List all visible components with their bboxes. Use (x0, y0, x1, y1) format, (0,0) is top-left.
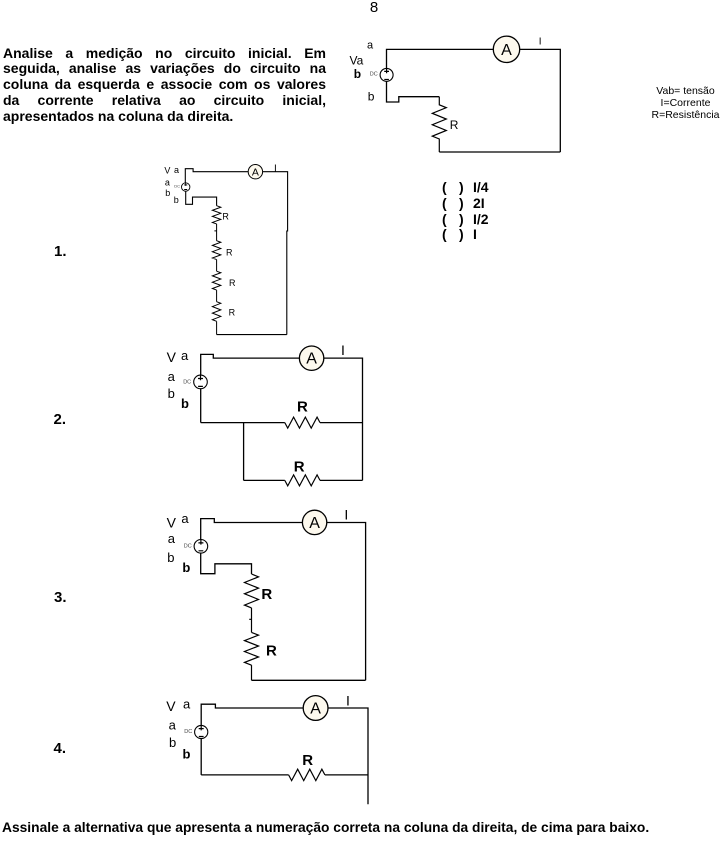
wire R2-R3 (circuit 1) (216, 260, 218, 272)
svg-text:R: R (261, 586, 272, 603)
svg-text:A: A (252, 167, 259, 179)
options column (0, 0, 1, 1)
ammeter A (circuit 2) (299, 346, 323, 370)
dc source V1 (circuit 1) (182, 183, 190, 191)
svg-text:b: b (169, 735, 176, 750)
svg-text:A: A (306, 351, 317, 368)
svg-text:a: a (174, 165, 179, 175)
resistor R2 (circuit 1) (212, 241, 220, 260)
resistor R (initial) (432, 97, 446, 152)
svg-text:b: b (182, 560, 190, 575)
wire R2 to bottom (circuit 3) (251, 665, 253, 680)
wire source bottom with step to resistor top (387, 82, 440, 103)
wire branch drop (circuit 2) (243, 423, 245, 481)
wire top with step (circuit 3) (201, 519, 303, 540)
svg-text:R: R (226, 248, 233, 258)
svg-text:Va: Va (350, 53, 364, 67)
wire upper branch right (circuit 2) (320, 422, 363, 424)
dc source V1 (380, 68, 393, 81)
svg-text:A: A (310, 701, 321, 718)
intro paragraph (3, 46, 326, 125)
wire bottom (circuit 3) (252, 679, 366, 681)
svg-text:I: I (274, 163, 277, 174)
resistor R3 (circuit 1) (212, 271, 220, 290)
bottom instruction (2, 821, 728, 835)
wire upper branch left (circuit 2) (201, 422, 285, 424)
wire source bottom step (circuit 1) (186, 191, 217, 206)
svg-text:a: a (168, 369, 176, 384)
svg-text:a: a (168, 531, 176, 546)
svg-text:DC: DC (183, 379, 191, 385)
svg-text:R: R (229, 308, 236, 318)
svg-text:b: b (354, 67, 361, 81)
wire ammeter to top-right corner and right side down (520, 49, 561, 152)
svg-text:b: b (165, 188, 170, 198)
svg-text:V: V (167, 514, 177, 530)
wire ammeter to right corner down (circuit 3) (327, 523, 366, 681)
svg-text:b: b (168, 386, 175, 401)
svg-text:a: a (181, 511, 189, 526)
svg-text:I: I (539, 37, 542, 48)
wire source bottom step (circuit 3) (201, 553, 252, 574)
svg-text:b: b (174, 195, 179, 205)
dc source V1 (circuit 2) (194, 375, 208, 389)
svg-text:A: A (309, 515, 320, 532)
ammeter A (circuit 3) (302, 510, 326, 534)
dc source V1 (circuit 3) (194, 540, 208, 554)
svg-text:R: R (229, 278, 236, 288)
svg-text:b: b (368, 90, 375, 104)
svg-text:R: R (222, 212, 229, 222)
svg-text:R: R (294, 459, 305, 476)
wire bottom left to resistor (circuit 4) (201, 774, 288, 776)
dc source V1 (circuit 4) (195, 725, 208, 738)
svg-text:R: R (302, 752, 313, 769)
svg-text:a: a (165, 178, 170, 188)
svg-text:DC: DC (370, 71, 378, 77)
svg-text:V: V (166, 698, 176, 714)
resistor R lower (circuit 2) (285, 475, 320, 486)
wire ammeter to right corner down (circuit 2) (324, 358, 363, 480)
wire lower branch left (circuit 2) (244, 479, 285, 481)
item number 3. (54, 591, 67, 605)
svg-text:A: A (501, 42, 512, 59)
wire R1-R2 (circuit 1) (214, 224, 216, 241)
wire top with step (circuit 1) (185, 169, 248, 184)
wire top with step (circuit 2) (201, 354, 300, 375)
ammeter A (circuit 4) (303, 696, 328, 721)
wire R4 to bottom (circuit 1) (216, 321, 218, 334)
wire ammeter to right corner down (circuit 1) (262, 172, 287, 335)
legend right (643, 85, 728, 121)
wire bottom resistor to right (circuit 4) (325, 774, 368, 776)
wire ammeter to right corner down with stub (circuit 4) (328, 708, 368, 804)
svg-text:a: a (169, 718, 177, 733)
svg-text:b: b (183, 746, 191, 761)
wire R1-R2 (circuit 3) (249, 608, 251, 633)
ammeter A1 (initial) (493, 36, 519, 62)
item number 1. (54, 245, 67, 259)
svg-text:V: V (167, 349, 177, 365)
wire source bottom left (circuit 4) (200, 739, 202, 775)
wire lower branch right (circuit 2) (320, 479, 363, 481)
resistor R1 (circuit 3) (245, 574, 259, 608)
wire R3-R4 (circuit 1) (216, 290, 218, 302)
resistor R4 (circuit 1) (212, 302, 220, 322)
svg-text:V: V (164, 165, 170, 175)
ammeter A (circuit 1) (248, 165, 262, 179)
resistor R upper (circuit 2) (285, 417, 320, 428)
svg-text:DC: DC (184, 544, 192, 550)
svg-text:a: a (181, 348, 189, 363)
wire source bottom left (circuit 2) (200, 389, 202, 423)
svg-text:DC: DC (184, 729, 192, 735)
svg-text:R: R (266, 643, 277, 660)
resistor R1 (circuit 1) (212, 206, 220, 224)
svg-text:a: a (367, 40, 374, 52)
svg-text:b: b (167, 550, 174, 565)
resistor R2 (circuit 3) (245, 632, 259, 665)
wire top with step (circuit 4) (201, 704, 303, 725)
resistor R (circuit 4) (289, 769, 325, 780)
wire top from source to ammeter (387, 49, 494, 68)
wire bottom from right corner to resistor (439, 151, 560, 153)
svg-text:b: b (181, 396, 189, 411)
svg-text:R: R (450, 118, 459, 132)
svg-text:R: R (297, 399, 308, 416)
item number 2. (54, 413, 67, 427)
wire bottom (circuit 1) (217, 334, 287, 336)
svg-text:I: I (341, 342, 345, 358)
svg-text:a: a (183, 696, 191, 711)
svg-text:I: I (344, 507, 348, 523)
svg-text:I: I (346, 692, 350, 708)
page number 8 (366, 1, 382, 15)
svg-text:DC: DC (174, 184, 180, 189)
item number 4. (54, 742, 67, 756)
